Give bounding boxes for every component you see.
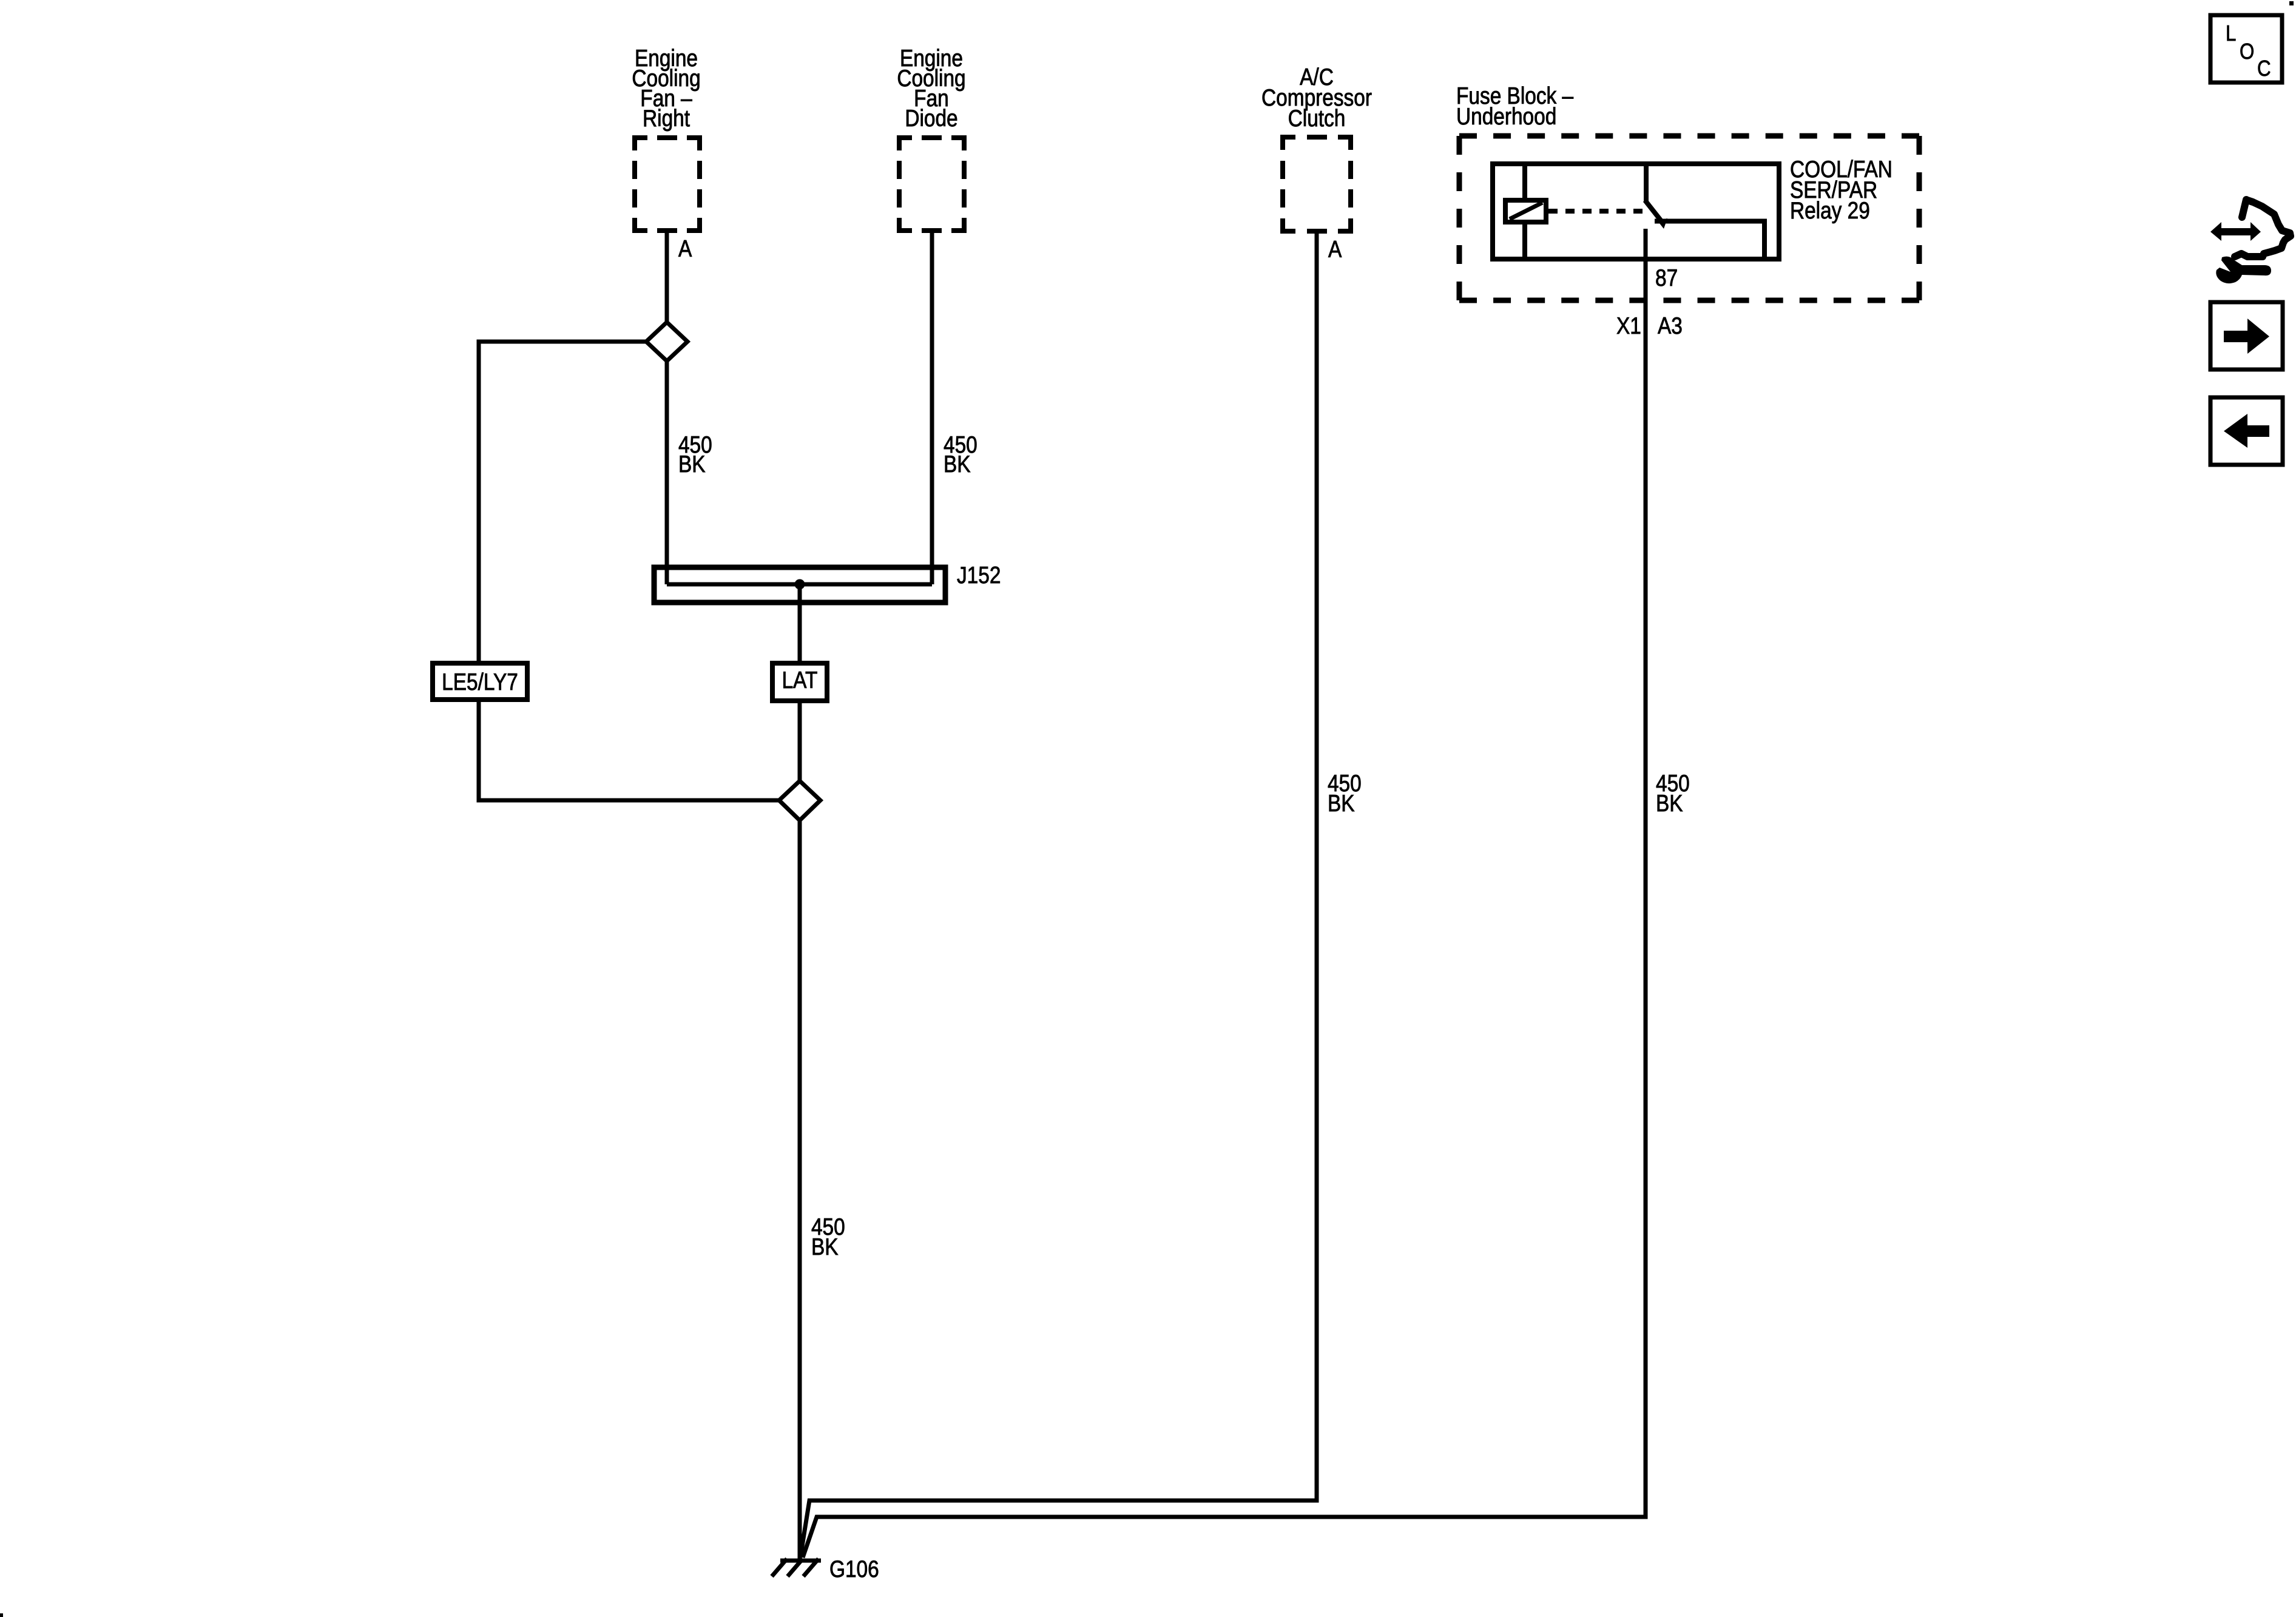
connector: A/C Compressor Clutch label (1261, 64, 1372, 132)
connector: Engine Cooling Fan Diode dashed box (899, 138, 964, 231)
svg-text:87: 87 (1655, 265, 1678, 291)
service icon: wrench (2216, 257, 2271, 283)
connector: Engine Cooling Fan Right dashed box (635, 138, 700, 231)
svg-text:J152: J152 (957, 562, 1001, 589)
connector: A/C Compressor Clutch dashed box (1283, 137, 1351, 231)
svg-text:Relay 29: Relay 29 (1790, 197, 1870, 224)
page artifact dot bottom left (0, 1613, 3, 1617)
svg-text:A: A (1328, 236, 1342, 263)
junction block J152 box (654, 567, 945, 603)
page artifact dot top right (2289, 1, 2294, 5)
svg-text:BK: BK (1328, 790, 1355, 817)
svg-text:LAT: LAT (782, 667, 818, 694)
relay COOL/FAN SER/PAR Relay 29 outline (1493, 164, 1779, 259)
nav icon: arrow right box (2210, 302, 2283, 370)
relay switch arm (1645, 200, 1661, 220)
wire: J152 to LAT (798, 584, 802, 661)
relay name label (1790, 156, 1893, 224)
fuse block underhood dashed box (1459, 136, 1919, 300)
relay coil-to-switch dashed link (1548, 209, 1644, 214)
relay coil stem wires (1522, 166, 1527, 257)
svg-text:BK: BK (944, 451, 971, 478)
wire: diamond1 left to LE5/LY7 (479, 342, 646, 661)
relay coil box (1505, 200, 1546, 222)
wire: LAT to diamond2 (798, 702, 802, 782)
relay switch pivot (1644, 166, 1649, 201)
splice (diamond) fan right (646, 322, 687, 361)
relay contact line to pin 87 frame (1655, 221, 1764, 257)
LOC icon box (2210, 15, 2282, 83)
option box LAT (772, 663, 827, 701)
service icon: double arrow (2210, 222, 2261, 241)
svg-text:BK: BK (811, 1234, 839, 1260)
nav icon: arrow left box (2210, 397, 2283, 465)
svg-text:Clutch: Clutch (1288, 105, 1346, 132)
service icon: hand outline (2235, 200, 2291, 257)
svg-text:LE5/LY7: LE5/LY7 (442, 669, 518, 695)
wire: diamond2 down to ground G106 (798, 820, 802, 1559)
svg-text:C: C (2257, 56, 2271, 81)
connector: Engine Cooling Fan Right label (632, 45, 700, 132)
svg-text:O: O (2240, 39, 2254, 64)
wire: A/C clutch to ground G106 (800, 229, 1317, 1558)
svg-text:A: A (678, 235, 692, 262)
wire: fan diode pigtail down to J152 bus (930, 228, 934, 584)
svg-text:Diode: Diode (905, 105, 957, 132)
junction dot on J152 bus (795, 579, 805, 590)
wire: J152 internal bus (667, 582, 932, 587)
svg-text:Underhood: Underhood (1456, 103, 1556, 130)
svg-text:A3: A3 (1658, 312, 1683, 339)
fuse block underhood label (1456, 83, 1574, 130)
wire: relay pin 87 to ground G106 (803, 229, 1646, 1558)
ground G106 symbol (772, 1559, 821, 1576)
wire: diamond1 bottom into J152 (665, 361, 669, 584)
svg-text:X1: X1 (1616, 312, 1641, 339)
relay contact tick (1657, 218, 1667, 229)
splice (diamond) below LAT (779, 781, 820, 820)
wire: LE5/LY7 to diamond2 (479, 702, 779, 800)
svg-text:G106: G106 (829, 1556, 879, 1582)
svg-text:BK: BK (1656, 790, 1683, 817)
svg-text:Right: Right (643, 105, 690, 132)
svg-text:BK: BK (678, 451, 706, 478)
connector: Engine Cooling Fan Diode label (897, 45, 965, 132)
wire: fan right pigtail (665, 228, 669, 323)
svg-text:L: L (2226, 21, 2236, 46)
engine option box LE5/LY7 (433, 663, 527, 700)
